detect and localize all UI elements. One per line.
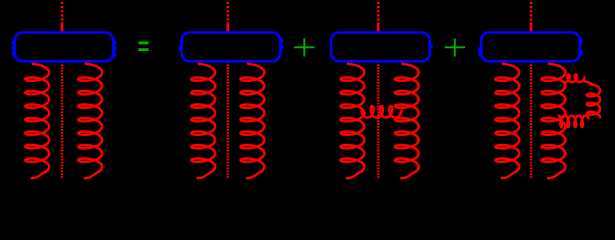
dotted cut line top, diagram 4 (530, 2, 533, 25)
blob edge bumps, diagram 3 (430, 44, 432, 48)
dotted cut line bottom, diagram 1 (61, 61, 63, 178)
gluon right leg, diagram 4 (542, 61, 566, 178)
plus sign 1 (294, 38, 314, 56)
dotted cut line bottom, diagram 4 (530, 61, 532, 178)
gluon loop top side, diagram 4 (560, 75, 585, 83)
dotted cut line bottom, diagram 2 (227, 61, 229, 178)
blob, diagram 2 (182, 33, 281, 62)
gluon rung between legs, diagram 3 (362, 106, 402, 118)
blob edge bumps, diagram 1 (13, 40, 116, 56)
gluon left leg, diagram 4 (495, 61, 519, 178)
dotted cut line top, diagram 3 (377, 2, 380, 25)
dotted cut line top, diagram 1 (61, 2, 64, 25)
gluon loop bottom side, diagram 4 (559, 116, 589, 128)
blob edge bumps, diagram 4 (479, 40, 582, 56)
plus sign 2 (445, 38, 465, 56)
gluon right leg, diagram 1 (78, 61, 102, 178)
equals sign (138, 42, 148, 45)
gluon loop top-right corner, diagram 4 (584, 81, 593, 85)
dotted cut line bottom, diagram 3 (377, 61, 379, 178)
gluon left leg, diagram 1 (25, 61, 49, 178)
gluon left leg, diagram 2 (191, 61, 215, 178)
gluon left leg, diagram 3 (341, 61, 365, 178)
blob, diagram 4 (481, 33, 580, 62)
gluon loop right side, diagram 4 (587, 85, 600, 118)
blob, diagram 3 (331, 33, 430, 62)
gluon right leg, diagram 3 (395, 61, 419, 178)
blob edge bumps, diagram 2 (180, 39, 283, 51)
gluon right leg, diagram 2 (241, 61, 265, 178)
dotted cut line top, diagram 2 (227, 2, 230, 25)
blob, diagram 1 (15, 33, 114, 62)
